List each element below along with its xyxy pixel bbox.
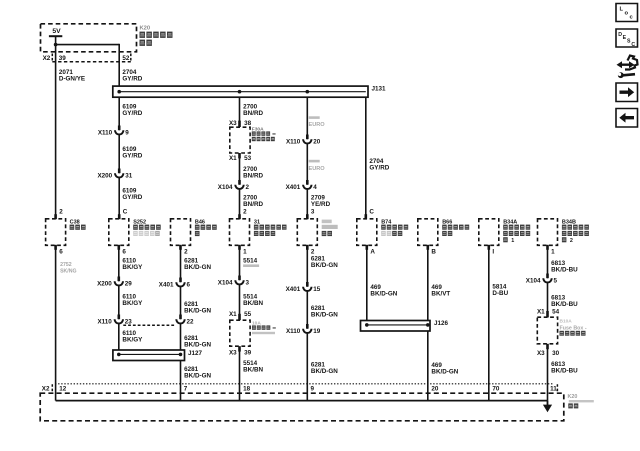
svg-text:22: 22: [187, 319, 195, 326]
label F30A: [252, 127, 276, 142]
connector X110 pin 22: [176, 315, 194, 326]
svg-text:EURO: EURO: [309, 122, 326, 128]
label 6110 a: [122, 257, 143, 271]
pin 6 of C38: [59, 248, 63, 255]
svg-text:54: 54: [552, 308, 560, 315]
pin C of B74: [369, 209, 374, 216]
svg-text:BK/D-GN: BK/D-GN: [184, 373, 211, 380]
svg-text:o: o: [625, 11, 629, 17]
svg-text:BK/VT: BK/VT: [431, 291, 450, 298]
svg-text:2752: 2752: [60, 262, 72, 268]
svg-text:BK/D-GN: BK/D-GN: [431, 369, 458, 376]
svg-text:J131: J131: [372, 86, 387, 93]
svg-text:L: L: [620, 7, 624, 13]
connector X104 pin 5: [526, 274, 558, 285]
node J126 tap c6: [365, 323, 369, 327]
svg-text:BK/BN: BK/BN: [243, 300, 263, 307]
pin stub bottom B34B: [546, 245, 549, 250]
wire 5V to pin 39: [55, 37, 57, 63]
svg-text:X401: X401: [286, 184, 301, 191]
connector X2 bottom row: [42, 384, 558, 393]
svg-text:2: 2: [311, 248, 315, 255]
label 6110 b: [122, 294, 143, 308]
pin 3 of sensor: [311, 209, 315, 216]
svg-text:C: C: [123, 209, 128, 216]
svg-text:YE/RD: YE/RD: [311, 201, 331, 208]
svg-text:D-BU: D-BU: [492, 290, 508, 297]
pin stub top B31: [238, 214, 241, 219]
svg-text:J127: J127: [188, 350, 203, 357]
svg-text:X1: X1: [229, 155, 237, 162]
svg-text:29: 29: [125, 281, 133, 288]
component C38 throttle: [46, 219, 66, 246]
svg-text:X401: X401: [286, 286, 301, 293]
fuse F10A underhood fuse block 2: [230, 320, 250, 346]
wire dashed X110 23-22 link: [123, 324, 176, 326]
label 2709 YE/RD: [311, 194, 331, 208]
component B74 MAP sensor: [357, 219, 377, 246]
pin stub bottom C38: [54, 245, 57, 250]
svg-text:X1: X1: [537, 308, 545, 315]
label 5514 c: [243, 360, 263, 374]
label 6110 c: [122, 330, 143, 344]
label 6813 a: [551, 260, 578, 274]
ground arrow: [543, 401, 552, 413]
svg-text:B: B: [431, 248, 436, 255]
node bus tap pin52: [117, 90, 121, 94]
wire 6281 e: [306, 245, 308, 286]
svg-text:2: 2: [246, 184, 250, 191]
svg-text:3: 3: [246, 280, 250, 287]
svg-text:I: I: [492, 248, 494, 255]
label C38: [70, 220, 86, 230]
component B34B coolant temp sensor 2: [538, 219, 558, 246]
node 5V junction: [54, 43, 58, 47]
wire 469 BK/D-GN b: [427, 331, 429, 401]
svg-text:20: 20: [431, 386, 439, 393]
component B46 oil level sensor: [171, 219, 191, 246]
label 2700 a: [243, 104, 263, 118]
svg-text:D-GN/YE: D-GN/YE: [59, 75, 85, 82]
svg-text:B10A: B10A: [560, 318, 573, 324]
label 469 b: [431, 362, 458, 376]
pin 1 of B31: [243, 248, 247, 255]
label sensor grey: [322, 220, 338, 236]
label 2700 c: [243, 194, 263, 208]
node J127 tap c3: [179, 353, 183, 357]
label 6813 c: [551, 361, 578, 375]
svg-text:Fuse Box -: Fuse Box -: [560, 325, 587, 331]
label 6109 a: [122, 104, 142, 118]
label 6281 f: [311, 305, 338, 319]
svg-text:BK/D-GN: BK/D-GN: [311, 262, 338, 269]
label 6109 c: [122, 187, 142, 201]
wire internal ECM bus: [56, 400, 548, 402]
svg-text:BK/D-GN: BK/D-GN: [184, 341, 211, 348]
pin stub bottom S252: [118, 245, 121, 250]
pin I of B34A: [492, 248, 494, 255]
svg-text:2: 2: [59, 209, 63, 216]
wire 469 BK/D-GN a: [366, 245, 368, 320]
svg-text:BK/D-GN: BK/D-GN: [311, 368, 338, 375]
wire 6110 BK/GY c: [118, 324, 120, 351]
fuse B10A underhood fuse block 3: [537, 317, 557, 344]
svg-text:11: 11: [550, 386, 557, 393]
svg-text:20: 20: [313, 139, 321, 146]
svg-text:X104: X104: [218, 280, 233, 287]
pin stub top S252: [118, 214, 121, 219]
svg-text:A: A: [370, 248, 375, 255]
label 5814: [492, 284, 508, 298]
svg-text:55: 55: [244, 311, 252, 318]
svg-text:X3: X3: [229, 120, 237, 127]
svg-text:5V: 5V: [52, 28, 61, 35]
connector X200 pin 29: [97, 277, 132, 288]
wire 469 BK/VT: [427, 245, 429, 320]
label 6281 a: [184, 257, 211, 271]
pin 12 X2: [59, 386, 67, 393]
wire 2071 D-GN/YE label: [59, 69, 85, 82]
wire 6110 BK/GY b: [118, 286, 120, 320]
svg-text:X2: X2: [42, 386, 50, 393]
svg-text:X3: X3: [229, 350, 237, 357]
label K20 bottom: [568, 394, 594, 408]
label 6813 b: [551, 295, 578, 309]
svg-text:BK/GY: BK/GY: [122, 264, 143, 271]
label J126: [434, 320, 449, 327]
pin stub bottom B46: [179, 245, 182, 250]
svg-text:X110: X110: [97, 319, 112, 326]
icon next arrow button: [616, 83, 638, 102]
pin 11 X2: [550, 386, 557, 393]
svg-text:12: 12: [59, 386, 67, 393]
node bus tap 2700: [238, 90, 242, 94]
svg-text:1: 1: [243, 248, 247, 255]
svg-text:BK/GY: BK/GY: [122, 300, 143, 307]
svg-text:BK/GY: BK/GY: [122, 337, 143, 344]
pin 2 of B46: [184, 248, 188, 255]
svg-text:BK/D-GN: BK/D-GN: [184, 308, 211, 315]
pin row X3 39: [229, 346, 252, 356]
wire 5514 b: [239, 285, 241, 315]
label J127: [188, 350, 203, 357]
wire 6281 d: [180, 361, 182, 401]
svg-text:BN/RD: BN/RD: [243, 173, 263, 180]
svg-text:BN/RD: BN/RD: [243, 201, 263, 208]
svg-text:X1: X1: [229, 311, 237, 318]
svg-text:9: 9: [125, 130, 129, 137]
5V supply symbol: [49, 28, 62, 37]
svg-text:70: 70: [492, 386, 500, 393]
wire 5514 c: [239, 351, 241, 401]
node bus tap 2709: [306, 90, 310, 94]
wire 2700 BN/RD b: [239, 158, 241, 185]
svg-text:30: 30: [552, 350, 560, 357]
pin A of B74: [370, 248, 375, 255]
pin stub top sensor: [306, 214, 309, 219]
pin C of S252: [123, 209, 128, 216]
node J126 tap c7: [426, 323, 430, 327]
svg-text:31: 31: [125, 173, 133, 180]
connector X2 top pin row: [43, 54, 131, 62]
svg-text:J126: J126: [434, 320, 449, 327]
svg-text:19: 19: [313, 328, 321, 335]
wire 2704 GY/RD label: [122, 69, 142, 82]
svg-text:X2: X2: [43, 55, 51, 62]
svg-text:38: 38: [244, 120, 252, 127]
svg-text:EURO: EURO: [309, 166, 326, 172]
connector X110 pin 9: [98, 126, 129, 137]
label B34B: [562, 220, 589, 244]
label B66: [442, 220, 469, 236]
pin 2 of C38: [59, 209, 63, 216]
svg-text:GY/RD: GY/RD: [122, 194, 142, 201]
pin stub bottom B34A: [488, 245, 491, 250]
component B66 intake air temp sensor: [418, 219, 438, 246]
pin 7 X2: [184, 386, 188, 393]
svg-text:6: 6: [59, 248, 63, 255]
wire 6110 BK/GY a: [118, 245, 120, 281]
pin stub bottom B66: [427, 245, 430, 250]
svg-text:7: 7: [184, 386, 188, 393]
svg-text:4: 4: [313, 184, 317, 191]
svg-text:X200: X200: [97, 173, 112, 180]
pin 70 X2: [492, 386, 500, 393]
fuse F30A underhood fuse block: [230, 127, 250, 153]
wire 6813 b: [547, 283, 549, 312]
pin 6 of S252: [122, 248, 126, 255]
svg-text:GY/RD: GY/RD: [122, 153, 142, 160]
wire 6281 a: [180, 245, 182, 282]
label J131: [372, 86, 387, 93]
label 2709 euro a: [309, 116, 326, 128]
label 2709 euro b: [309, 160, 326, 172]
svg-text:5514: 5514: [243, 257, 258, 264]
wire 2709 upper: [306, 97, 308, 219]
wire 5814 D-BU: [488, 245, 490, 400]
label 6109 b: [122, 146, 142, 160]
connector X110 pin 20: [286, 135, 321, 146]
svg-text:D: D: [618, 32, 622, 38]
wire 6281 b: [180, 287, 182, 320]
svg-text:2: 2: [243, 209, 247, 216]
pin stub top C38: [54, 214, 57, 219]
svg-text:BK/D-BU: BK/D-BU: [551, 267, 578, 274]
bus J127: [113, 350, 185, 361]
label B74: [381, 220, 408, 236]
svg-text:K20: K20: [568, 394, 578, 400]
pin stub bottom B74: [366, 245, 369, 250]
label B46: [195, 220, 217, 236]
svg-text:C: C: [631, 42, 635, 48]
svg-text:BN/RD: BN/RD: [243, 110, 263, 117]
ECM K20 module box (bottom): [40, 393, 564, 421]
svg-text:X200: X200: [97, 281, 112, 288]
svg-text:1: 1: [551, 248, 555, 255]
label S252: [133, 220, 161, 236]
svg-text:C: C: [369, 209, 374, 216]
svg-text:S: S: [627, 39, 631, 45]
wire 6281 c: [180, 324, 182, 351]
pin row X3 30: [537, 344, 560, 357]
connector X200 pin 31: [97, 169, 132, 180]
wire 2700 BN/RD a: [239, 97, 241, 121]
label 6281 g: [311, 362, 338, 376]
svg-text:18: 18: [243, 386, 251, 393]
node J127 tap c2: [117, 353, 121, 357]
component B31 AC refrigerant pressure sensor: [230, 219, 250, 246]
pin 9 X2: [311, 386, 315, 393]
wire 6109 GY/RD upper: [118, 97, 120, 219]
pin 2 of B31: [243, 209, 247, 216]
pin row X1 54: [537, 308, 560, 317]
svg-text:X104: X104: [218, 184, 233, 191]
svg-text:X3: X3: [537, 350, 545, 357]
wire 6281 f: [306, 291, 308, 329]
label 6281 d: [184, 366, 211, 380]
label 469 a: [370, 284, 397, 298]
label 2700 b: [243, 166, 263, 180]
label F10A: [252, 320, 276, 334]
svg-text:39: 39: [244, 350, 252, 357]
svg-text:BK/D-GN: BK/D-GN: [184, 264, 211, 271]
label ECM name zh: [140, 32, 173, 46]
label 469 BK/VT: [431, 284, 450, 298]
wire 6813 c: [547, 349, 549, 401]
wire branch down to pin 52: [118, 44, 120, 87]
connector X401 pin 4: [286, 180, 318, 191]
wire 2700 BN/RD c: [239, 189, 241, 219]
label 2752 grey: [60, 262, 76, 275]
ECM K20 engine control module (top): [41, 24, 137, 52]
svg-text:X401: X401: [159, 282, 174, 289]
svg-text:52: 52: [122, 55, 130, 62]
bus J131: [113, 86, 368, 97]
pin row X1 55: [229, 311, 252, 320]
svg-text:BK/D-BU: BK/D-BU: [551, 368, 578, 375]
svg-text:X110: X110: [286, 328, 301, 335]
pin 39: [59, 55, 67, 62]
svg-text:53: 53: [244, 155, 252, 162]
svg-text:6: 6: [187, 282, 191, 289]
icon service tool: [617, 56, 638, 79]
pin 2 of sensor: [311, 248, 315, 255]
bus J126: [361, 321, 431, 332]
icon DESC button: [616, 29, 638, 48]
svg-text:X110: X110: [286, 139, 301, 146]
wire 2071 vertical: [55, 63, 57, 219]
svg-text:K20: K20: [140, 26, 151, 32]
svg-text:BK/D-GN: BK/D-GN: [311, 312, 338, 319]
svg-text:BK/D-BU: BK/D-BU: [551, 301, 578, 308]
svg-text:15: 15: [313, 286, 321, 293]
svg-text:1: 1: [511, 238, 514, 244]
label 6281 b: [184, 301, 211, 315]
label 6281 c: [184, 335, 211, 349]
label 2704 GY/RD b: [369, 158, 389, 172]
label 5514 b: [243, 294, 263, 308]
wire 2704 GY/RD right: [365, 97, 367, 219]
svg-text:X104: X104: [526, 278, 541, 285]
pin 1 of B34B: [551, 248, 555, 255]
component S252 clutch pedal switch: [109, 219, 129, 246]
pin stub bottom B31: [238, 245, 241, 250]
svg-text:GY/RD: GY/RD: [122, 75, 142, 82]
pin 18 X2: [243, 386, 251, 393]
svg-text:GY/RD: GY/RD: [369, 165, 389, 172]
pin stub top B74: [365, 214, 368, 219]
svg-text:BK/D-GN: BK/D-GN: [370, 291, 397, 298]
svg-text:X110: X110: [98, 130, 113, 137]
svg-text:39: 39: [59, 55, 67, 62]
pin row X1 53: [229, 153, 252, 162]
label B31: [254, 220, 287, 236]
svg-text:5: 5: [554, 278, 558, 285]
label 5514 a: [243, 257, 259, 267]
icon prev arrow button: [616, 109, 638, 128]
connector X110 pin 23: [97, 315, 132, 326]
component B34A coolant temp sensor 1: [479, 219, 499, 246]
svg-text:2: 2: [184, 248, 188, 255]
wire 5V branch horizontal: [56, 44, 120, 46]
pin stub bottom sensor: [306, 245, 309, 250]
label B34A: [503, 220, 530, 244]
icon LOC button: [616, 4, 638, 22]
svg-text:E: E: [623, 35, 627, 41]
svg-text:6: 6: [122, 248, 126, 255]
component sensor (grey label): [297, 219, 317, 246]
pin 52: [122, 55, 130, 62]
pin B of B66: [431, 248, 436, 255]
connector X401 pin 15: [286, 282, 321, 293]
label 6281 e: [311, 256, 338, 270]
connector X104 pin 2: [218, 180, 250, 191]
connector X104 pin 3: [218, 276, 250, 287]
svg-text:2: 2: [570, 238, 573, 244]
svg-text:9: 9: [311, 386, 315, 393]
label K20: [140, 26, 151, 32]
wire C38 to ECM: [55, 245, 57, 400]
svg-text:BK/BN: BK/BN: [243, 367, 263, 374]
svg-text:GY/RD: GY/RD: [122, 110, 142, 117]
svg-text:3: 3: [311, 209, 315, 216]
wire 6281 g: [306, 333, 308, 401]
connector X401 pin 6: [159, 278, 191, 289]
wire 5514 a: [239, 245, 241, 280]
label B10A: [560, 318, 587, 335]
pin 20 X2: [431, 386, 439, 393]
pin row X3 38: [229, 120, 252, 127]
svg-text:SK/NG: SK/NG: [60, 269, 76, 275]
wire 6813 a: [547, 245, 549, 278]
connector X110 pin 19: [286, 324, 321, 335]
